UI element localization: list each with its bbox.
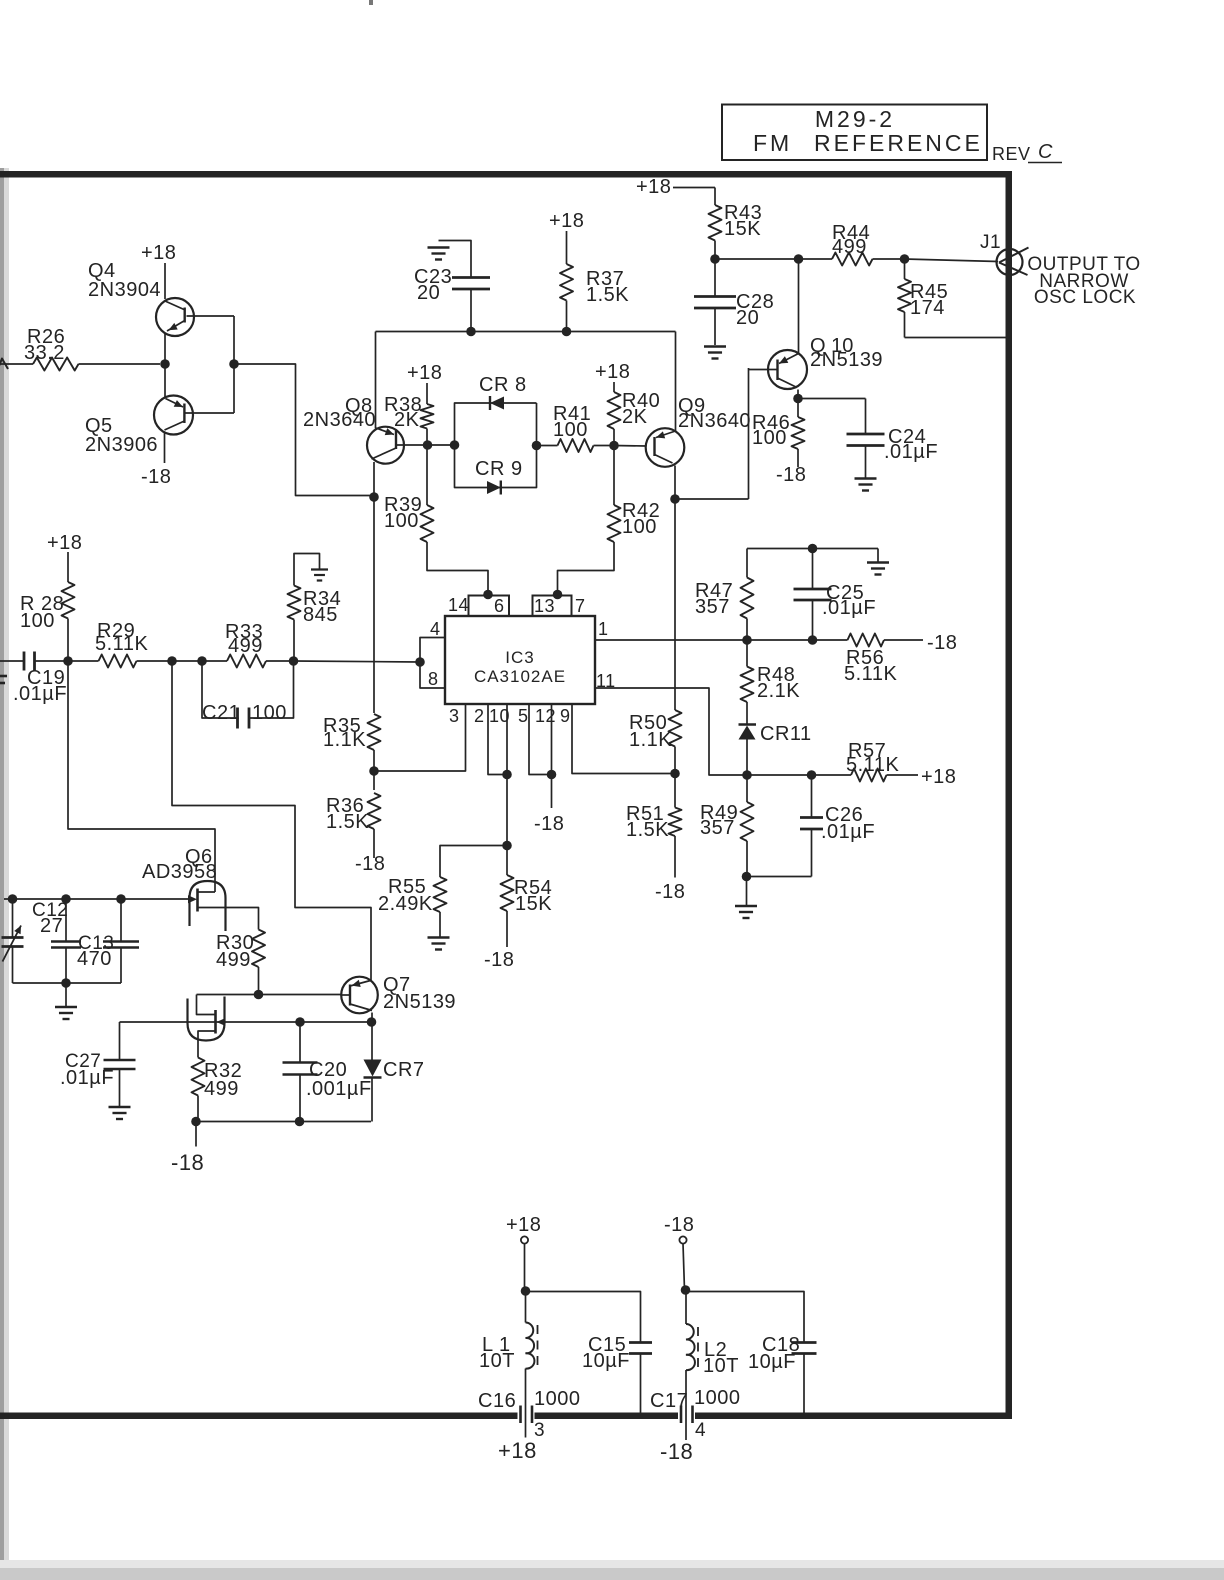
svg-text:IC3: IC3 — [505, 648, 534, 667]
svg-text:100: 100 — [553, 419, 588, 441]
node R50/R51/pin9 — [670, 769, 680, 779]
capacitor C18 10uF — [792, 1341, 817, 1344]
svg-text:12: 12 — [535, 706, 556, 726]
svg-text:.01µF: .01µF — [822, 597, 876, 619]
capacitor C15 10uF — [629, 1341, 652, 1344]
wire to L1 node — [524, 1244, 526, 1292]
svg-text:-18: -18 — [534, 813, 564, 835]
svg-text:2N5139: 2N5139 — [383, 991, 456, 1013]
svg-text:14: 14 — [448, 595, 469, 615]
resistor R36 1.5K — [373, 771, 375, 790]
svg-text:1.1K: 1.1K — [323, 729, 366, 751]
svg-text:15K: 15K — [515, 893, 552, 915]
svg-text:-18: -18 — [484, 949, 514, 971]
svg-text:20: 20 — [417, 282, 440, 304]
wire gate rail — [4, 898, 190, 900]
svg-text:5.11K: 5.11K — [95, 633, 148, 655]
resistor R29 5.11K — [68, 660, 99, 662]
wire node down to Q7 emitter — [172, 661, 371, 978]
svg-text:499: 499 — [832, 236, 867, 258]
node C21 left — [197, 656, 207, 666]
node R33/R34 — [289, 656, 299, 666]
wire node to CR loop — [428, 444, 455, 446]
capacitor C24 .01uF — [798, 398, 866, 400]
transistor Q9 2N3640 — [646, 428, 685, 467]
svg-text:100: 100 — [622, 516, 657, 538]
terminal circle +18 — [521, 1236, 528, 1243]
wire node to Q9 base — [614, 445, 646, 448]
svg-text:2N5139: 2N5139 — [810, 349, 883, 371]
resistor R39 100 — [426, 445, 428, 505]
svg-text:+18: +18 — [506, 1214, 541, 1236]
svg-text:C: C — [1038, 141, 1053, 163]
svg-text:CA3102AE: CA3102AE — [474, 667, 566, 686]
node R44/R45 — [900, 254, 910, 264]
wire to L2 node — [683, 1244, 685, 1291]
diode CR8 — [455, 403, 537, 445]
node Q4/Q5 emitter junction — [160, 359, 170, 369]
svg-text:OSC LOCK: OSC LOCK — [1034, 287, 1136, 308]
resistor R55 2.49K — [440, 846, 507, 878]
svg-text:11: 11 — [596, 671, 616, 691]
wire Q4 emitter down to node — [164, 334, 166, 364]
resistor R50 1.1K — [669, 710, 682, 747]
wire emitter rail — [376, 331, 676, 333]
capacitor C16 1000 (feedthrough) — [518, 1411, 535, 1421]
terminal circle -18 — [679, 1236, 686, 1243]
wire R47 top rail — [747, 548, 878, 550]
svg-text:1.5K: 1.5K — [626, 819, 669, 841]
resistor R49 357 — [746, 775, 748, 802]
svg-text:REV: REV — [992, 144, 1031, 164]
node tank ground — [61, 978, 71, 988]
wire tank bottom rail — [13, 982, 122, 984]
svg-text:2N3906: 2N3906 — [85, 434, 158, 456]
svg-text:100: 100 — [20, 610, 55, 632]
pins 4/8 bracket — [420, 638, 445, 689]
node L2/C18 — [681, 1285, 691, 1295]
capacitor C27 .01uF — [119, 1022, 121, 1060]
capacitor C28 20 — [714, 259, 716, 296]
wire to IC3 pins 4/8 — [294, 661, 421, 662]
ground top right — [877, 549, 879, 563]
node CR loop left — [450, 440, 460, 450]
node CR loop right — [532, 441, 542, 451]
svg-text:845: 845 — [303, 604, 338, 626]
node L1/C15 — [521, 1286, 531, 1296]
svg-text:-18: -18 — [141, 466, 171, 488]
capacitor C12 27 — [65, 899, 67, 941]
svg-text:1000: 1000 — [694, 1387, 741, 1409]
wire C23 to emitter rail — [470, 289, 472, 332]
svg-text:-18: -18 — [927, 632, 957, 654]
resistor R42 100 — [613, 446, 615, 506]
wire Q4 collector to +18 — [164, 263, 166, 299]
node C25 on pin1 — [808, 635, 818, 645]
resistor R40 2K — [613, 382, 615, 392]
svg-text:-18: -18 — [355, 853, 385, 875]
resistor R43 15K — [673, 187, 715, 189]
node C20 top — [295, 1017, 305, 1027]
border frame top — [0, 171, 1010, 178]
capacitor C17 1000 (feedthrough) — [678, 1411, 695, 1421]
svg-text:-18: -18 — [776, 464, 806, 486]
transistor Q4 2N3904 — [156, 298, 194, 336]
svg-text:5.11K: 5.11K — [844, 663, 897, 685]
IC IC3 CA3102AE — [445, 616, 595, 704]
pin box 13/7 — [533, 596, 572, 617]
resistor R33 499 — [202, 660, 227, 662]
wire Q4 base to right bus — [187, 315, 235, 317]
svg-text:499: 499 — [216, 949, 251, 971]
node Q10 emitter tap — [794, 254, 804, 264]
svg-text:1.1K: 1.1K — [629, 729, 672, 751]
pin 12 wire — [551, 704, 553, 808]
svg-text:4: 4 — [430, 619, 441, 639]
wire to J1 — [905, 259, 999, 262]
resistor R48 2.1K — [746, 640, 748, 667]
diode CR9 — [455, 403, 537, 488]
svg-text:+18: +18 — [921, 766, 956, 788]
node pin4/8 — [415, 657, 425, 667]
resistor R26 33.2 — [0, 363, 33, 365]
transistor Q10 2N5139 — [798, 259, 800, 354]
svg-text:.001µF: .001µF — [306, 1078, 372, 1100]
svg-text:+18: +18 — [549, 210, 584, 232]
svg-text:.01µF: .01µF — [60, 1067, 114, 1089]
resistor R38 2K — [426, 383, 428, 404]
svg-text:10µF: 10µF — [582, 1350, 630, 1372]
svg-text:+18: +18 — [636, 176, 671, 198]
node R30 bottom — [254, 990, 264, 1000]
svg-text:-18: -18 — [660, 1439, 693, 1464]
pin 9 wire — [572, 704, 674, 774]
svg-text:CR 9: CR 9 — [475, 458, 523, 480]
svg-text:20: 20 — [736, 307, 759, 329]
svg-text:CR7: CR7 — [383, 1059, 425, 1081]
pin box 14/6 — [469, 596, 510, 617]
svg-text:470: 470 — [77, 948, 112, 970]
svg-text:-18: -18 — [664, 1214, 694, 1236]
node varicap top — [8, 894, 18, 904]
wire to -18 — [195, 1122, 197, 1147]
svg-text:8: 8 — [428, 669, 439, 689]
wire L1 through C16 — [525, 1369, 527, 1438]
node R47/R48 on pin1 — [742, 635, 752, 645]
node R38/Q8 base — [423, 440, 433, 450]
wire rail to Q9 emitter — [675, 332, 677, 432]
svg-text:M29-2: M29-2 — [815, 106, 895, 132]
node R28/C19 — [63, 656, 73, 666]
svg-text:13: 13 — [534, 596, 555, 616]
node R49/C26 bottom — [742, 872, 752, 882]
svg-text:5.11K: 5.11K — [846, 754, 899, 776]
svg-text:1000: 1000 — [534, 1388, 581, 1410]
node R40/R42/Q9 base — [609, 441, 619, 451]
node pin10/R55/R54 — [502, 841, 512, 851]
ground R49 — [746, 877, 748, 906]
node Q9 collector — [670, 494, 680, 504]
capacitor C21 100 — [202, 661, 238, 718]
stray scan tick top — [369, 0, 373, 5]
svg-text:2K: 2K — [394, 409, 420, 431]
resistor R56 5.11K — [848, 634, 885, 647]
pin 10 wire — [506, 704, 508, 846]
border frame right — [1006, 171, 1013, 1419]
svg-text:10: 10 — [489, 706, 510, 726]
svg-text:174: 174 — [910, 297, 945, 319]
svg-text:CR11: CR11 — [760, 723, 812, 745]
node CR11/R49/R57 — [742, 770, 752, 780]
wire R57 rail — [747, 774, 851, 776]
diode CR7 — [371, 1022, 373, 1060]
wire base bus to Q8 collector line — [234, 364, 374, 496]
svg-text:REFERENCE: REFERENCE — [814, 130, 983, 156]
svg-text:499: 499 — [228, 635, 263, 657]
resistor R28 100 — [67, 552, 69, 582]
svg-text:10µF: 10µF — [748, 1351, 796, 1373]
svg-text:CR 8: CR 8 — [479, 374, 527, 396]
svg-text:2N3640: 2N3640 — [678, 410, 751, 432]
svg-text:2N3640: 2N3640 — [303, 409, 376, 431]
svg-text:C17: C17 — [650, 1390, 688, 1412]
svg-text:+18: +18 — [407, 362, 442, 384]
pin 5 wire — [529, 704, 552, 775]
svg-text:4: 4 — [695, 1420, 706, 1441]
bottom page-edge shading — [0, 1560, 1224, 1568]
border frame bottom — [0, 1413, 1012, 1420]
resistor R35 1.1K — [368, 714, 381, 750]
wire Q6 drain to R30 — [198, 908, 259, 930]
wire node to C18 — [686, 1292, 805, 1343]
node base bus — [229, 359, 239, 369]
capacitor C26 .01uF — [811, 775, 813, 817]
svg-text:FM: FM — [753, 130, 792, 156]
svg-text:2.1K: 2.1K — [757, 680, 800, 702]
svg-text:10T: 10T — [703, 1355, 739, 1377]
svg-text:J1: J1 — [980, 232, 1001, 253]
wire Q5 base to bus — [184, 412, 234, 414]
resistor R47 357 — [746, 549, 748, 578]
svg-text:3: 3 — [449, 706, 460, 726]
resistor R44 499 — [832, 253, 873, 266]
wire L2 through C17 — [685, 1370, 687, 1440]
resistor R46 100 — [792, 417, 805, 449]
svg-text:-18: -18 — [171, 1150, 204, 1175]
node pin13 top — [553, 590, 563, 600]
capacitor C13 470 — [120, 899, 122, 941]
svg-text:10T: 10T — [479, 1350, 515, 1372]
svg-text:7: 7 — [575, 596, 586, 616]
left page-edge shading — [0, 168, 4, 1580]
fet Q6 lower half — [188, 997, 225, 1041]
node C25 top — [808, 544, 818, 554]
wire C19 node to Q6 top — [68, 661, 215, 883]
resistor R37 1.5K — [566, 231, 568, 264]
pin 11 wire — [595, 688, 747, 775]
capacitor C19 .01uF — [0, 660, 24, 662]
svg-text:-18: -18 — [655, 881, 685, 903]
wire -18 rail bottom — [198, 1121, 371, 1123]
svg-text:1.5K: 1.5K — [326, 811, 369, 833]
ground for C23 — [439, 241, 472, 278]
wire Q8 base — [396, 444, 428, 446]
ground tank — [65, 983, 67, 1006]
node R43/C28 — [710, 254, 720, 264]
svg-text:.01µF: .01µF — [821, 821, 875, 843]
inductor L1 10T — [525, 1291, 527, 1323]
svg-text:+18: +18 — [498, 1438, 537, 1463]
svg-text:100: 100 — [384, 510, 419, 532]
node C13 top — [116, 894, 126, 904]
node Q10 collector — [793, 394, 803, 404]
svg-text:499: 499 — [204, 1078, 239, 1100]
wire R44 rail — [715, 258, 832, 260]
resistor R54 15K — [506, 846, 508, 876]
svg-text:2K: 2K — [622, 406, 648, 428]
node pin5/pin12 — [547, 770, 557, 780]
svg-text:6: 6 — [494, 596, 505, 616]
page-edge symbol fragment — [0, 675, 7, 678]
pin 3 wire — [374, 704, 466, 771]
wire rail to Q8 emitter — [375, 332, 377, 429]
fet Q6 AD3958 (upper half) — [190, 881, 226, 931]
wire gate rail lower — [120, 1021, 372, 1023]
resistor R34 845 — [293, 620, 295, 662]
svg-text:C16: C16 — [478, 1390, 516, 1412]
node R29 right — [167, 656, 177, 666]
resistor R45 174 — [904, 259, 906, 279]
inductor L2 10T — [685, 1290, 687, 1324]
svg-text:100: 100 — [752, 427, 787, 449]
resistor R30 499 — [252, 930, 265, 968]
svg-text:.01µF: .01µF — [13, 683, 67, 705]
svg-text:.01µF: .01µF — [884, 441, 938, 463]
wire node to C15 — [526, 1292, 641, 1343]
capacitor C20 .001uF — [299, 1022, 301, 1062]
svg-text:357: 357 — [700, 817, 735, 839]
svg-text:AD3958: AD3958 — [142, 861, 217, 883]
svg-text:5: 5 — [518, 706, 529, 726]
svg-text:1.5K: 1.5K — [586, 284, 629, 306]
connector J1 — [997, 249, 1023, 275]
svg-text:9: 9 — [560, 706, 571, 726]
node Q8 collector / base-bus — [369, 492, 379, 502]
svg-text:+18: +18 — [47, 532, 82, 554]
transistor Q7 2N5139 — [341, 977, 378, 1014]
resistor R51 1.5K — [674, 774, 676, 808]
resistor R32 499 — [192, 1058, 205, 1096]
node C26 top — [807, 770, 817, 780]
wire Q9 collector down to R50 — [674, 499, 676, 710]
svg-text:+18: +18 — [595, 361, 630, 383]
node pin6 top — [483, 590, 493, 600]
transistor Q8 2N3640 — [367, 427, 404, 464]
svg-text:1: 1 — [598, 619, 609, 639]
node Q7 collector — [367, 1017, 377, 1027]
resistor R57 5.11K — [851, 769, 887, 782]
svg-text:33.2: 33.2 — [24, 342, 65, 364]
diode CR11 — [739, 723, 757, 725]
capacitor C23 20 — [452, 276, 490, 279]
wire Q9 collector to Q10 base — [675, 498, 749, 500]
transistor Q5 2N3906 — [164, 364, 166, 397]
node pin2/pin10 — [502, 770, 512, 780]
svg-text:15K: 15K — [724, 218, 761, 240]
svg-text:100: 100 — [252, 702, 287, 724]
resistor R41 100 — [537, 445, 558, 447]
wire R30 node rail — [197, 994, 342, 996]
capacitor C25 .01uF — [812, 549, 814, 589]
svg-text:2.49K: 2.49K — [378, 893, 433, 915]
pin 2 wire — [488, 704, 507, 775]
svg-text:+18: +18 — [141, 242, 176, 264]
page-edge zigzag fragment — [0, 359, 8, 372]
node R35/R36/pin3 — [369, 766, 379, 776]
svg-text:27: 27 — [40, 915, 63, 937]
node C12 top — [61, 894, 71, 904]
svg-text:2N3904: 2N3904 — [88, 279, 161, 301]
svg-text:C21: C21 — [202, 702, 240, 724]
svg-text:2: 2 — [474, 706, 485, 726]
svg-text:357: 357 — [695, 596, 730, 618]
varicap at page edge — [12, 899, 14, 937]
title box — [722, 105, 987, 161]
pin 1 wire — [595, 639, 848, 641]
